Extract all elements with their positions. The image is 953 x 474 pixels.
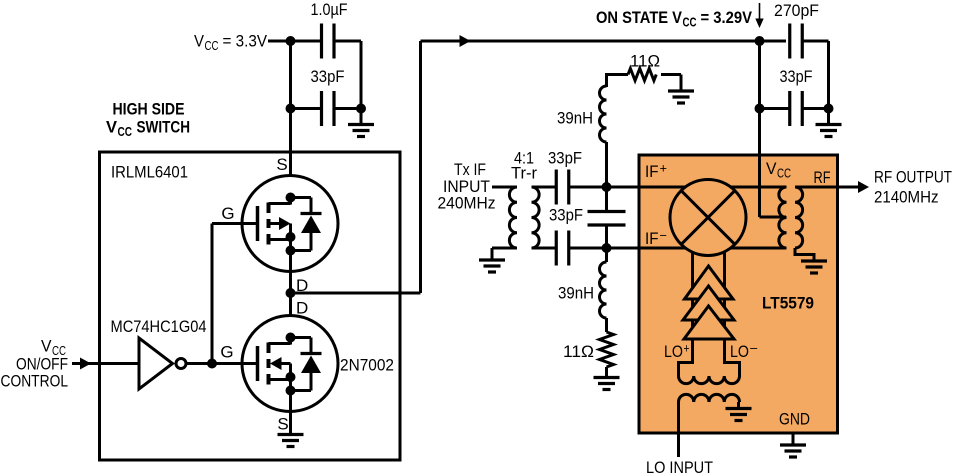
- svg-text:2N7002: 2N7002: [340, 356, 394, 375]
- wire top rail to LT5579 Vcc: [421, 40, 787, 43]
- svg-text:1.0µF: 1.0µF: [311, 0, 348, 19]
- wire T2 secondary to ground: [795, 248, 814, 261]
- arrow current direction on rail: [460, 35, 471, 47]
- wire T1 primary bottom to ground: [492, 247, 517, 250]
- wire T1 secondary bottom lead: [532, 247, 558, 250]
- svg-text:270pF: 270pF: [774, 1, 819, 20]
- svg-text:= 3.29V: = 3.29V: [701, 8, 753, 27]
- wire Q1 drain to node D: [289, 251, 292, 338]
- svg-text:S: S: [277, 415, 288, 434]
- resistor R2 11ohm: [600, 332, 614, 367]
- wire GND pin stub: [792, 433, 795, 445]
- capacitor C5 33pF series top: [556, 170, 569, 205]
- wire R2 ground stub: [605, 367, 608, 378]
- wire 33pF right lead 2: [802, 107, 829, 110]
- svg-text:+: +: [660, 162, 668, 176]
- wire L1 top corner: [605, 75, 608, 88]
- capacitor C6 33pF series bottom: [556, 231, 569, 266]
- wire top choke stub: [605, 142, 608, 187]
- svg-text:2140MHz: 2140MHz: [874, 188, 939, 207]
- svg-text:RF: RF: [814, 168, 831, 187]
- node gate junction: [207, 359, 217, 369]
- ground T2 secondary: [801, 261, 827, 273]
- node Vcc supply junction: [286, 36, 296, 46]
- ground R1: [668, 91, 694, 103]
- svg-text:33pF: 33pF: [311, 67, 345, 86]
- svg-text:V: V: [106, 118, 118, 137]
- inductor L2 39nH: [600, 262, 607, 318]
- transformer T3 primary winding: [679, 394, 740, 402]
- wire Q2 source to ground: [289, 391, 292, 435]
- svg-text:D: D: [296, 276, 308, 295]
- wire T1 ground stub: [491, 248, 494, 260]
- wire Tx IF input lead: [492, 186, 517, 189]
- svg-text:−: −: [660, 229, 668, 243]
- svg-text:LO: LO: [730, 342, 749, 361]
- mixer cross: [681, 191, 735, 245]
- box high side Vcc switch enclosure: [100, 152, 401, 460]
- capacitor C2 33pF: [322, 91, 335, 126]
- svg-text:IF: IF: [645, 162, 659, 181]
- svg-text:D: D: [296, 299, 308, 318]
- svg-text:V: V: [766, 159, 777, 178]
- capacitor C7 shunt: [588, 212, 626, 226]
- wire LO amp right vertical: [723, 250, 726, 363]
- svg-text:SWITCH: SWITCH: [137, 118, 191, 137]
- transformer T3 secondary winding: [679, 376, 740, 384]
- capacitor C1 1.0uF: [322, 24, 335, 59]
- svg-text:LO INPUT: LO INPUT: [646, 458, 713, 474]
- node bypass junction right 2: [824, 104, 834, 114]
- wire LO amp left vertical: [691, 250, 694, 363]
- svg-text:LO: LO: [664, 342, 683, 361]
- arrow measurement pointer: [755, 3, 763, 28]
- svg-text:CC: CC: [118, 125, 133, 139]
- svg-text:LT5579: LT5579: [762, 294, 814, 313]
- wire 1.0uF to corner: [334, 40, 361, 43]
- transistor internals: [258, 193, 322, 256]
- wire bottom choke stub: [605, 248, 608, 262]
- pin IF-: [645, 229, 667, 249]
- svg-text:IF: IF: [645, 229, 659, 248]
- wire control input: [72, 362, 139, 365]
- wire ground stub 2: [827, 109, 830, 125]
- wire 270pF right lead: [802, 40, 829, 43]
- ground bypass caps 2: [816, 125, 842, 137]
- transformer T1 primary winding: [509, 187, 517, 248]
- wire node D to riser: [291, 292, 421, 295]
- node bypass junction left 2: [755, 104, 765, 114]
- arrow RF output: [858, 181, 869, 193]
- wire ground stub: [360, 109, 363, 125]
- ground GND pin: [780, 445, 806, 457]
- wire shunt cap bottom lead: [605, 225, 608, 248]
- transistor internals: [258, 333, 322, 396]
- pin LO-: [730, 342, 758, 362]
- wire gate riser to Q1: [211, 224, 214, 364]
- wire T3 primary ground stub: [737, 402, 740, 409]
- svg-text:Tr-r: Tr-r: [511, 164, 537, 183]
- transformer T2 secondary winding: [795, 187, 803, 248]
- wire inverter output to gates: [187, 362, 257, 365]
- wire riser to top rail: [419, 41, 422, 293]
- label Vcc = 3.3V: [194, 32, 268, 54]
- transformer T2 primary winding: [779, 187, 787, 248]
- wire IF+ line: [569, 186, 787, 189]
- wire 33pF right lead: [334, 107, 361, 110]
- svg-text:−: −: [750, 342, 759, 356]
- LO amplifier stage 1: [685, 266, 734, 299]
- arrow control input: [80, 358, 91, 370]
- wire Vcc 3.3V lead: [268, 40, 321, 43]
- LO amplifier stage 2: [683, 286, 734, 320]
- svg-text:= 3.3V: = 3.3V: [223, 32, 268, 51]
- wire Vcc tap to T2: [760, 216, 787, 219]
- label Vcc control: [41, 337, 66, 359]
- wire L1 to R1: [605, 73, 628, 76]
- svg-text:G: G: [221, 204, 234, 223]
- ground Q2 source: [278, 435, 304, 447]
- wire Q1 gate lead: [212, 222, 256, 225]
- ground T3 primary: [726, 409, 752, 421]
- svg-text:S: S: [276, 155, 287, 174]
- wire right bypass vertical: [360, 41, 363, 109]
- svg-text:G: G: [220, 343, 233, 362]
- svg-text:MC74HC1G04: MC74HC1G04: [111, 317, 207, 336]
- wire LO- lead: [725, 339, 740, 376]
- pin IF+: [645, 162, 667, 182]
- wire Vcc feed down to LT5579: [758, 41, 761, 217]
- svg-text:33pF: 33pF: [548, 149, 582, 168]
- label ON STATE Vcc = 3.29V: [596, 8, 753, 30]
- svg-text:CC: CC: [777, 167, 791, 181]
- node bypass left junction: [286, 104, 296, 114]
- svg-text:39nH: 39nH: [558, 284, 594, 303]
- svg-text:33pF: 33pF: [549, 206, 583, 225]
- ground R2: [594, 378, 620, 390]
- IC U1 LT5579 body: [639, 155, 838, 433]
- wire 33pF left lead 2: [760, 107, 791, 110]
- svg-text:HIGH SIDE: HIGH SIDE: [113, 100, 185, 119]
- transformer T1 secondary winding: [532, 187, 540, 248]
- node on-state junction: [755, 36, 765, 46]
- ground bypass caps: [348, 125, 374, 137]
- mixer circle: [670, 180, 746, 256]
- pin LO+: [664, 342, 690, 362]
- wire Vcc vertical feed to switch: [289, 41, 292, 198]
- wire shunt cap top lead: [605, 187, 608, 212]
- svg-text:33pF: 33pF: [780, 67, 813, 86]
- transistor body circle: [242, 176, 338, 272]
- pin Vcc LT5579: [766, 159, 791, 181]
- wire right bypass vertical 2: [827, 41, 830, 109]
- wire R1 ground stub: [680, 75, 683, 92]
- wire L2 to R2: [605, 318, 608, 332]
- svg-text:240MHz: 240MHz: [438, 194, 496, 213]
- svg-text:RF OUTPUT: RF OUTPUT: [874, 168, 952, 187]
- wire LO+ lead: [679, 339, 693, 376]
- svg-text:V: V: [41, 337, 52, 356]
- node IF+ junction: [602, 182, 612, 192]
- transistor body circle: [242, 316, 338, 412]
- wire R1 to ground corner: [661, 73, 681, 76]
- node D junction: [286, 288, 296, 298]
- label Vcc SWITCH: [106, 118, 190, 140]
- svg-text:ON STATE V: ON STATE V: [596, 8, 683, 27]
- node IF- junction: [602, 243, 612, 253]
- wire RF output line: [795, 186, 860, 189]
- svg-text:CONTROL: CONTROL: [1, 372, 69, 391]
- svg-text:V: V: [194, 32, 205, 51]
- inverter U2 MC74HC1G04 triangle: [139, 338, 173, 389]
- svg-text:GND: GND: [779, 410, 810, 429]
- node bypass right junction: [356, 104, 366, 114]
- svg-text:11Ω: 11Ω: [630, 52, 660, 71]
- svg-text:IRLML6401: IRLML6401: [111, 163, 188, 182]
- svg-text:11Ω: 11Ω: [563, 342, 594, 361]
- capacitor C4 33pF: [790, 91, 803, 126]
- inductor L1 39nH: [600, 86, 607, 142]
- ground T1 primary: [479, 260, 505, 272]
- svg-text:39nH: 39nH: [557, 109, 593, 128]
- LO amplifier stage 3: [684, 306, 734, 339]
- svg-text:CC: CC: [205, 39, 219, 53]
- resistor R1 11ohm: [628, 69, 656, 81]
- wire IF- line: [569, 247, 787, 250]
- svg-text:CC: CC: [683, 16, 697, 30]
- wire T1 secondary top lead: [532, 186, 558, 189]
- capacitor C3 270pF: [790, 24, 803, 59]
- inverter output bubble: [176, 359, 186, 369]
- wire 33pF left lead: [291, 107, 322, 110]
- svg-text:+: +: [684, 342, 690, 356]
- wire LO input lead: [677, 402, 680, 457]
